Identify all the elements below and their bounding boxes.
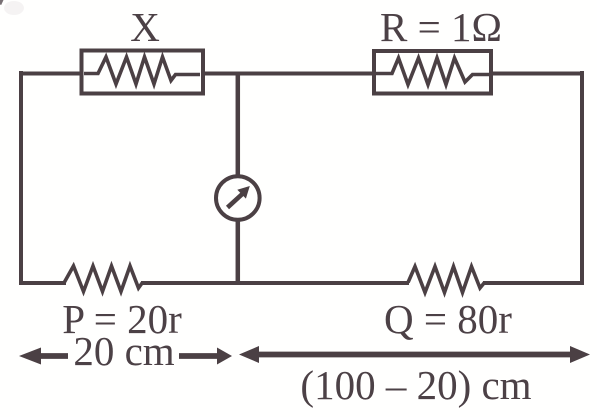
svg-text:Q = 80r: Q = 80r [384, 296, 512, 342]
wire bottom-left segment [19, 281, 66, 285]
wire bottom-middle segment [141, 281, 409, 285]
svg-text:X: X [130, 4, 160, 50]
svg-text:R = 1Ω: R = 1Ω [380, 4, 502, 50]
svg-text:20 cm: 20 cm [73, 328, 174, 374]
galvanometer needle arrowhead [237, 186, 250, 199]
wire right vertical [580, 71, 584, 285]
wire top-middle segment [201, 72, 376, 76]
galvanometer G [216, 176, 260, 220]
resistor X box [82, 51, 204, 94]
wire top-right segment [489, 72, 584, 76]
dimension 20cm left arrow [38, 353, 68, 359]
svg-text:(100 – 20) cm: (100 – 20) cm [300, 362, 531, 408]
wire galvanometer top lead [236, 74, 241, 179]
resistor Q zigzag [408, 267, 485, 293]
dimension (100-20)cm double arrow [256, 352, 573, 358]
corner artifact [0, 0, 4, 5]
resistor P zigzag [65, 266, 143, 292]
resistor R zigzag [376, 58, 489, 85]
wire top-left segment [19, 72, 83, 76]
resistor X zigzag [84, 57, 200, 84]
galvanometer needle [228, 194, 243, 208]
wire galvanometer bottom lead [236, 218, 241, 285]
wire left vertical [19, 71, 23, 285]
resistor R box [374, 51, 491, 94]
dimension 20cm right arrow [179, 353, 219, 359]
wire bottom-right segment [483, 281, 584, 285]
